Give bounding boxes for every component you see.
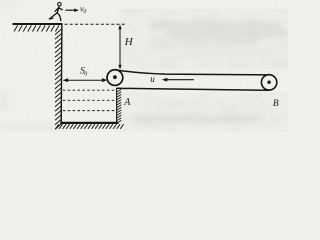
svg-text:u: u [150,74,155,84]
svg-text:A: A [123,97,131,108]
svg-text:H: H [124,36,134,48]
svg-text:0: 0 [84,72,87,78]
svg-text:B: B [273,99,279,109]
svg-text:0: 0 [83,9,86,15]
